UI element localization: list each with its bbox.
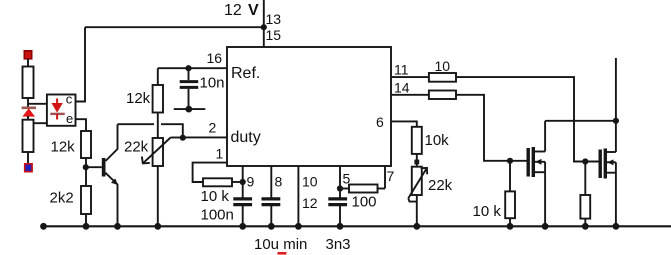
svg-text:10u min: 10u min xyxy=(254,236,307,253)
svg-text:11: 11 xyxy=(394,62,409,78)
svg-text:100: 100 xyxy=(352,194,377,211)
node rail pulldown right xyxy=(582,223,589,230)
wire to 12k xyxy=(157,68,159,85)
node pin16 xyxy=(185,65,191,71)
node drain bus xyxy=(613,118,619,124)
wire pin11 to right gate xyxy=(456,77,599,161)
wire pin9 xyxy=(242,166,244,226)
wire xyxy=(27,152,29,164)
resistor 10k (right gate pulldown) xyxy=(580,162,590,227)
node rail pin6 pot xyxy=(413,223,420,230)
svg-text:22k: 22k xyxy=(124,139,149,156)
svg-text:6: 6 xyxy=(376,114,384,130)
node left gate xyxy=(507,158,513,164)
node right gate xyxy=(582,158,588,164)
node base xyxy=(83,164,89,170)
wire pin14 xyxy=(391,94,429,96)
resistor (left chain lower) xyxy=(23,120,34,152)
svg-text:16: 16 xyxy=(207,50,223,66)
wire pin11 xyxy=(391,76,429,78)
optocoupler U2 xyxy=(47,95,76,126)
resistor (left chain upper) xyxy=(23,67,34,99)
node duty xyxy=(180,135,186,141)
red mark under 10u xyxy=(278,252,287,255)
resistor 10 k (feedback) xyxy=(203,178,232,186)
node pin6 divider xyxy=(414,160,419,165)
resistor 12k (opto emitter) xyxy=(81,131,91,158)
svg-text:12k: 12k xyxy=(126,90,151,107)
wire pin16 xyxy=(158,67,227,69)
capacitor 10u xyxy=(262,199,281,205)
op-amp IC U1 box xyxy=(227,47,391,166)
svg-text:12: 12 xyxy=(224,2,242,19)
svg-text:13: 13 xyxy=(266,11,282,27)
wire pot bottom xyxy=(157,166,159,226)
svg-text:Ref.: Ref. xyxy=(231,65,260,82)
wire collector to pot junction xyxy=(118,123,155,125)
wire xyxy=(27,98,29,107)
wire output up xyxy=(615,58,617,152)
svg-text:2k2: 2k2 xyxy=(50,190,74,207)
node rail pulldown left xyxy=(507,223,514,230)
wire node-to-opto bottom xyxy=(28,122,47,124)
transistor M2 (right MOSFET) xyxy=(599,149,616,227)
resistor 10 (pin14) xyxy=(429,91,456,100)
resistor 10 k (left gate pulldown) xyxy=(505,161,515,227)
svg-text:7: 7 xyxy=(387,168,395,184)
resistor 100 xyxy=(340,185,385,193)
wire xyxy=(27,116,29,120)
svg-text:V: V xyxy=(248,2,259,19)
node rail emitter xyxy=(114,223,121,230)
wire drain bus xyxy=(545,120,616,122)
capacitor C 10n xyxy=(180,68,199,109)
capacitor 3n3 xyxy=(328,199,347,205)
wire node-to-opto top xyxy=(28,103,47,105)
svg-text:8: 8 xyxy=(275,174,283,190)
wire to duty node xyxy=(161,124,183,137)
node rail left end xyxy=(40,223,47,230)
wire pin6 xyxy=(391,121,417,126)
node pin5 xyxy=(337,185,343,191)
svg-text:15: 15 xyxy=(266,27,282,43)
wire pin14 to left gate xyxy=(456,95,527,161)
svg-text:c: c xyxy=(66,92,73,107)
svg-text:10: 10 xyxy=(435,58,451,74)
svg-text:1: 1 xyxy=(216,146,224,162)
resistor R 12k (ref divider) xyxy=(153,85,163,113)
node 12V xyxy=(261,24,267,30)
node rail pin5 xyxy=(337,223,344,230)
wire stub below 10n xyxy=(174,108,206,110)
opto internal LED xyxy=(50,98,64,119)
wire opto-e down xyxy=(76,119,87,131)
svg-text:12k: 12k xyxy=(51,139,76,156)
terminal top-left (red square) xyxy=(24,51,31,59)
wire opto-c to 12V xyxy=(76,27,86,101)
12V rail xyxy=(85,26,264,28)
svg-text:10n: 10n xyxy=(200,74,225,91)
node rail right mosfet source xyxy=(613,223,620,230)
node rail pin9 xyxy=(239,223,246,230)
svg-text:3n3: 3n3 xyxy=(326,236,351,253)
LED D1 xyxy=(22,108,36,117)
transistor M1 (left MOSFET) xyxy=(527,121,546,227)
node rail pin10 xyxy=(295,223,302,230)
wire pins 13/15 xyxy=(263,0,265,47)
node stub xyxy=(185,106,192,113)
wire 12k to pot xyxy=(157,113,159,139)
transistor Q1 xyxy=(86,124,118,226)
svg-text:14: 14 xyxy=(394,80,410,96)
wire pin8 xyxy=(270,166,272,226)
svg-text:12: 12 xyxy=(302,195,318,211)
wire xyxy=(27,59,29,67)
wire pin5 xyxy=(339,166,341,226)
resistor 2k2 xyxy=(81,186,91,214)
wire pot to rail xyxy=(416,195,418,226)
svg-text:duty: duty xyxy=(231,129,261,146)
node rail 2k2 xyxy=(83,223,90,230)
capacitor 100n xyxy=(233,199,252,205)
wire pin10/12 xyxy=(297,166,299,226)
wire xyxy=(85,214,87,226)
resistor 10 (pin11) xyxy=(429,73,456,82)
resistor 10k (pin6) xyxy=(412,127,422,154)
svg-text:100n: 100n xyxy=(201,207,234,224)
terminal bottom-left (blue square) xyxy=(25,164,32,172)
svg-text:22k: 22k xyxy=(428,177,453,194)
node rail left mosfet source xyxy=(542,223,549,230)
potentiometer 22k (pin6) xyxy=(408,167,427,202)
wire pin2 duty xyxy=(183,136,227,138)
wire xyxy=(416,154,418,167)
svg-text:2: 2 xyxy=(209,120,217,136)
node rail pin8 xyxy=(268,223,275,230)
svg-text:10 k: 10 k xyxy=(201,188,230,205)
potentiometer P1 22k xyxy=(142,138,183,167)
svg-text:9: 9 xyxy=(247,174,255,190)
wire pin7 xyxy=(384,166,386,189)
node rail pot xyxy=(154,223,161,230)
svg-text:10 k: 10 k xyxy=(473,203,502,220)
svg-text:10: 10 xyxy=(302,174,318,190)
wire pin1 xyxy=(193,163,227,182)
svg-text:e: e xyxy=(66,111,73,126)
wire xyxy=(85,158,87,186)
wire xyxy=(232,181,243,183)
ground rail xyxy=(43,225,671,227)
svg-text:10k: 10k xyxy=(425,132,450,149)
node pin9 xyxy=(240,179,246,185)
